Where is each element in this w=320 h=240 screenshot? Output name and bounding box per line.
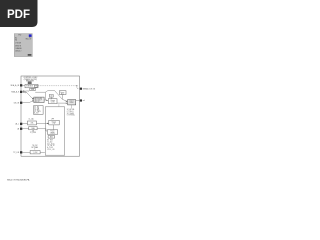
svg-text:TP_LIN: TP_LIN (13, 152, 20, 154)
svg-text:LIB_IN: LIB_IN (14, 102, 20, 104)
svg-text:4.2: 4.2 (29, 37, 31, 39)
wire B2 into M3 (57, 102, 67, 104)
svg-text:PT_PWM: PT_PWM (30, 132, 37, 134)
wire tick (58, 104, 60, 107)
pin LIB (20, 102, 22, 104)
avg block L3 (48, 136, 55, 139)
svg-text:Charge: Charge (52, 121, 57, 123)
svg-text:S M BUS: S M BUS (26, 86, 33, 88)
wire L1 to L2 (53, 125, 55, 129)
register list block C2 (34, 106, 44, 115)
control logic header text (23, 77, 38, 82)
cal block L0 (28, 121, 37, 125)
comp block L2 (47, 130, 57, 134)
register block (28, 82, 31, 84)
label D_OUT list (67, 108, 75, 116)
cmp block L0b (29, 127, 37, 130)
wire U1 to pin SMBA_OUT (38, 86, 80, 89)
pin TMA (20, 91, 22, 93)
inner module box (45, 107, 64, 155)
wire branch down (44, 92, 46, 100)
svg-text:AL_I: AL_I (15, 122, 19, 125)
wire pin SDA to U1 (22, 84, 25, 86)
wire pin LIB to C1 (22, 101, 32, 103)
smbus interface block C1 (34, 97, 44, 102)
svg-text:SMBA_OUT_M: SMBA_OUT_M (83, 87, 96, 90)
wire M3 down (70, 105, 72, 109)
svg-text:CTL: CTL (53, 123, 56, 125)
svg-text:SM-D 70TSLM20ELPA: SM-D 70TSLM20ELPA (7, 178, 30, 181)
svg-text:Driver: Driver (70, 102, 74, 104)
svg-text:MODE B: MODE B (15, 45, 21, 47)
wire M3 to pin AD (76, 100, 80, 102)
wire M2 down (61, 95, 63, 100)
svg-text:SUB: SUB (31, 89, 34, 91)
svg-text:Power: Power (51, 131, 55, 133)
svg-text:UL_CAL: UL_CAL (29, 117, 34, 120)
pin AI (20, 128, 22, 130)
wire pin AI to L0b to L2 (22, 128, 28, 130)
pin AL (20, 123, 22, 125)
svg-text:4 BL: 4 BL (30, 123, 33, 125)
charge ctl block L1 (49, 120, 59, 125)
svg-text:ad: ad (83, 100, 85, 102)
wire pin TMA to C1 (22, 92, 33, 99)
pdf badge (0, 0, 38, 27)
svg-text:CONTROL LOGIC: CONTROL LOGIC (23, 77, 38, 79)
wire pin TP_LIN (22, 151, 30, 153)
wire mid horizontal (35, 91, 67, 102)
svg-text:AI: AI (17, 127, 19, 130)
sub block U1b (30, 88, 35, 91)
legend window (14, 34, 32, 57)
svg-text:DMode 2: DMode 2 (15, 51, 21, 53)
svg-text:Charge: Charge (50, 100, 55, 102)
sense block M2 (59, 91, 66, 95)
svg-text:SDA_A_IN: SDA_A_IN (10, 84, 19, 87)
pin AD (80, 99, 82, 101)
svg-text:1 MODE: 1 MODE (15, 43, 21, 45)
svg-text:PDF: PDF (7, 9, 30, 21)
pin SMBA_OUT (80, 88, 82, 90)
pin TP_LIN (20, 151, 22, 153)
svg-text:Bd: Bd (15, 39, 17, 41)
block diagram (21, 76, 80, 156)
pin SDA (20, 84, 22, 86)
svg-text:TMA_A_S: TMA_A_S (11, 90, 20, 93)
wire C1 to B2 (44, 99, 47, 101)
svg-text:SCLK_LIN: SCLK_LIN (47, 149, 54, 151)
osc block L4 (30, 151, 40, 154)
smbus block U1 (25, 84, 38, 87)
charge block B2 (48, 99, 57, 104)
svg-text:SM_LST: SM_LST (26, 39, 32, 41)
clock block M1 (49, 95, 53, 98)
svg-text:SC_AD D/A: SC_AD D/A (67, 108, 74, 111)
outer boundary (21, 76, 80, 156)
svg-text:AT_R/W: AT_R/W (47, 139, 53, 142)
output driver block M3 (68, 100, 76, 105)
signal list (47, 139, 55, 152)
wire pin AL to L0 to L1 (22, 122, 27, 124)
